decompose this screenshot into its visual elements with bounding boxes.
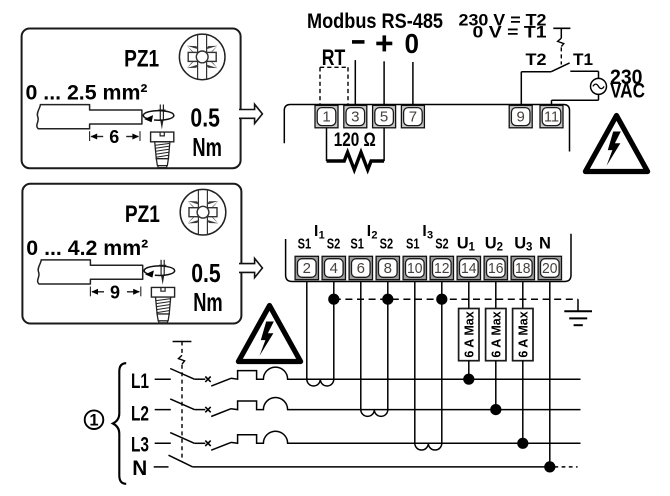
svg-text:S2: S2	[380, 236, 394, 252]
svg-text:9: 9	[110, 282, 120, 302]
svg-text:4: 4	[330, 260, 338, 277]
svg-text:U: U	[514, 234, 526, 252]
svg-text:3: 3	[351, 109, 359, 126]
svg-text:S2: S2	[327, 236, 341, 252]
svg-text:6: 6	[109, 127, 119, 147]
svg-text:16: 16	[488, 260, 504, 277]
svg-text:L1: L1	[131, 369, 149, 393]
svg-text:U: U	[457, 234, 469, 252]
svg-text:7: 7	[409, 109, 417, 126]
svg-text:PZ1: PZ1	[124, 46, 159, 73]
svg-text:3: 3	[427, 230, 433, 242]
svg-text:5: 5	[380, 109, 388, 126]
svg-text:1: 1	[89, 412, 98, 430]
svg-text:2: 2	[371, 230, 377, 242]
svg-text:T1: T1	[573, 50, 593, 69]
svg-text:S1: S1	[350, 236, 364, 252]
svg-text:N: N	[132, 456, 147, 480]
svg-text:0: 0	[404, 28, 419, 59]
svg-text:0.5: 0.5	[191, 258, 221, 288]
svg-text:18: 18	[515, 260, 531, 277]
svg-text:1: 1	[319, 230, 325, 242]
svg-text:10: 10	[407, 260, 423, 277]
svg-text:2: 2	[497, 242, 503, 254]
svg-text:12: 12	[434, 260, 450, 277]
svg-text:8: 8	[384, 260, 392, 277]
svg-text:6: 6	[357, 260, 365, 277]
svg-text:PZ1: PZ1	[125, 201, 160, 228]
svg-text:14: 14	[461, 260, 477, 277]
svg-text:3: 3	[526, 242, 532, 254]
svg-text:U: U	[485, 234, 497, 252]
svg-text:9: 9	[517, 109, 525, 126]
svg-text:T2: T2	[526, 50, 547, 69]
svg-text:VAC: VAC	[610, 79, 645, 103]
svg-text:120 Ω: 120 Ω	[334, 129, 376, 151]
svg-text:L2: L2	[131, 402, 149, 426]
svg-text:S1: S1	[298, 236, 312, 252]
svg-text:Nm: Nm	[193, 287, 223, 317]
svg-text:Modbus RS-485: Modbus RS-485	[307, 9, 443, 33]
svg-text:S1: S1	[406, 236, 420, 252]
svg-text:RT: RT	[322, 45, 346, 70]
svg-text:S2: S2	[435, 236, 449, 252]
svg-text:Nm: Nm	[192, 132, 222, 162]
svg-text:0 V = T1: 0 V = T1	[473, 24, 547, 42]
svg-text:11: 11	[544, 109, 559, 126]
svg-text:20: 20	[542, 260, 558, 277]
svg-text:0 ... 2.5 mm²: 0 ... 2.5 mm²	[26, 81, 148, 105]
svg-text:1: 1	[322, 109, 330, 126]
svg-text:L3: L3	[131, 433, 149, 457]
svg-text:N: N	[539, 234, 551, 252]
svg-text:0.5: 0.5	[190, 103, 220, 133]
svg-text:2: 2	[303, 260, 311, 277]
svg-text:1: 1	[469, 242, 476, 254]
svg-text:0 ... 4.2 mm²: 0 ... 4.2 mm²	[26, 236, 148, 260]
